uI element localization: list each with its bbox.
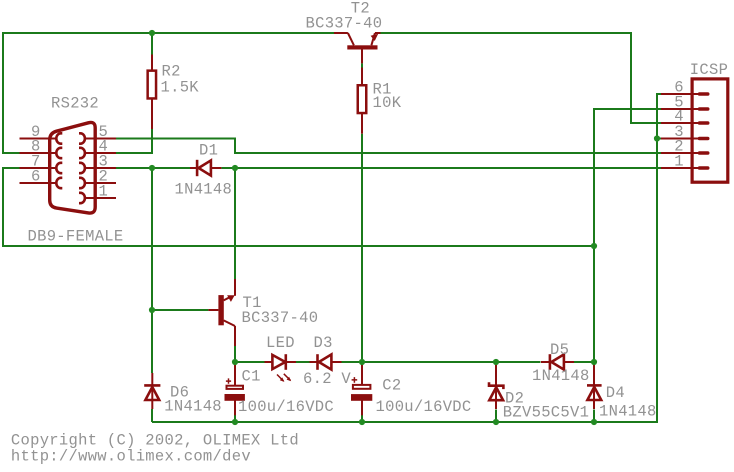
svg-text:D4: D4	[606, 384, 625, 402]
svg-text:100u/16VDC: 100u/16VDC	[238, 398, 334, 416]
svg-text:RS232: RS232	[51, 95, 99, 113]
svg-text:C1: C1	[242, 368, 261, 386]
svg-text:C2: C2	[382, 377, 401, 395]
svg-text:ICSP: ICSP	[690, 61, 728, 79]
svg-text:BC337-40: BC337-40	[306, 15, 383, 33]
svg-text:BZV55C5V1: BZV55C5V1	[503, 404, 589, 422]
svg-text:100u/16VDC: 100u/16VDC	[376, 398, 472, 416]
svg-text:1N4148: 1N4148	[175, 180, 233, 198]
svg-text:LED: LED	[266, 334, 295, 352]
svg-text:1.5K: 1.5K	[161, 78, 200, 96]
svg-text:http://www.olimex.com/dev: http://www.olimex.com/dev	[11, 448, 251, 466]
svg-text:10K: 10K	[373, 94, 402, 112]
svg-text:1N4148: 1N4148	[164, 398, 222, 416]
svg-text:D1: D1	[199, 141, 218, 159]
svg-text:BC337-40: BC337-40	[242, 309, 319, 327]
svg-text:1N4148: 1N4148	[532, 367, 590, 385]
svg-text:1: 1	[99, 182, 109, 200]
svg-text:DB9-FEMALE: DB9-FEMALE	[28, 228, 124, 246]
svg-text:1: 1	[674, 152, 684, 170]
svg-text:D5: D5	[550, 341, 569, 359]
svg-text:6.2 V: 6.2 V	[303, 370, 351, 388]
svg-text:D3: D3	[314, 334, 333, 352]
svg-text:6: 6	[31, 167, 41, 185]
svg-text:1N4148: 1N4148	[599, 403, 657, 421]
